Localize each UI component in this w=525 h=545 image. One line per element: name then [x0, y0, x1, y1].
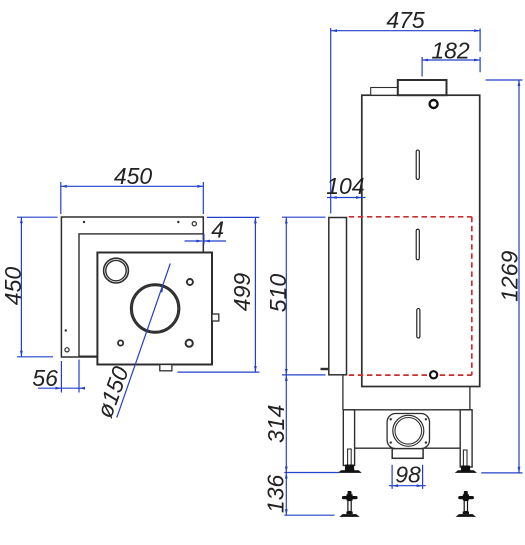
fan inner circle [395, 418, 422, 445]
grommet circle at bottom on red line [430, 371, 437, 378]
fan outer circle [393, 415, 424, 446]
top-left round opening [104, 258, 129, 283]
dim 450 V arrows [20, 217, 23, 223]
outlet duct below fan [392, 449, 423, 459]
lower shelf line [355, 447, 461, 449]
fan plate screws [390, 418, 428, 444]
dim 182 lines [422, 59, 480, 61]
detached foot right [456, 491, 476, 517]
dim 314 lines [285, 375, 287, 473]
svg-text:56: 56 [32, 365, 58, 391]
stand back inset edge [469, 387, 471, 410]
dim 98 lines [389, 485, 426, 487]
dim 182 arrows [422, 59, 428, 62]
stand front edge [342, 375, 344, 410]
air slot 1 [416, 150, 419, 179]
bottom tab [160, 365, 172, 371]
o150 leader line [117, 264, 171, 418]
small open hole left edge bottom [65, 348, 69, 352]
dim 450 H arrows [61, 185, 67, 188]
left foot base plate [338, 470, 362, 473]
dim 104 arrows [331, 196, 337, 199]
dim 510 lines [285, 218, 287, 375]
dim 136 lines [285, 473, 287, 516]
firebox body (plan) [97, 253, 212, 365]
dim 4 lines [185, 240, 203, 242]
bolt hole bottom-left [118, 340, 123, 345]
dim 4 arrows [196, 240, 202, 243]
outer top plate 450x450 [61, 217, 203, 357]
svg-text:104: 104 [326, 173, 364, 199]
right foot base plate [455, 470, 477, 473]
grommet circle on top of body [430, 100, 438, 108]
dim 499 arrows [254, 217, 257, 223]
right side tab [212, 314, 219, 321]
dim 136 arrows [285, 473, 288, 479]
dim 510 arrows [285, 218, 288, 224]
dim 104 line [327, 197, 366, 199]
dim 499 lines [254, 217, 256, 372]
main body (side) [362, 95, 480, 386]
flue collar circle o150 [131, 284, 180, 333]
dim 450 horizontal lines [61, 185, 204, 187]
svg-text:450: 450 [0, 267, 26, 306]
dim 475 arrows [331, 29, 337, 32]
dim 56 lines [38, 387, 85, 389]
air slot 2 [416, 229, 419, 260]
left foot block [345, 465, 355, 471]
svg-text:4: 4 [211, 217, 224, 243]
fan mounting plate [387, 414, 429, 449]
svg-text:98: 98 [395, 461, 421, 487]
dim 98 arrows [392, 484, 398, 487]
red clearance dashed rectangle [349, 217, 472, 375]
svg-text:510: 510 [265, 274, 291, 313]
bolt hole bottom-right [186, 340, 193, 347]
o150 leader arrowhead [160, 286, 164, 293]
svg-text:499: 499 [229, 273, 255, 312]
svg-text:314: 314 [263, 405, 289, 443]
flue collar (side) [398, 80, 447, 95]
rivet dots on top plate [65, 221, 180, 332]
detached foot left [339, 491, 359, 517]
svg-text:450: 450 [114, 163, 153, 189]
left foot threaded stem [348, 449, 352, 466]
door/glass panel front [329, 218, 347, 375]
dim 450 vertical lines [20, 217, 22, 357]
right foot block [461, 466, 471, 472]
svg-text:182: 182 [431, 37, 470, 63]
dim 475 lines [331, 30, 480, 32]
svg-text:475: 475 [386, 7, 425, 33]
dim 1269 lines [518, 80, 520, 473]
air slot 3 [417, 309, 420, 339]
small open hole top plate right [192, 222, 196, 226]
right foot threaded stem [463, 450, 467, 467]
second plate (inner offset plate) [79, 234, 203, 356]
svg-text:136: 136 [263, 475, 289, 514]
bolt hole top-right [187, 279, 193, 285]
left leg [343, 410, 354, 466]
right leg [460, 410, 472, 467]
dim 56 arrows [55, 387, 61, 390]
dim 314 arrows [285, 375, 288, 381]
small step left of collar [371, 88, 399, 96]
stand top line [343, 409, 472, 411]
handle tick [321, 368, 329, 370]
svg-text:1269: 1269 [497, 251, 523, 302]
dim 1269 arrows [518, 80, 521, 86]
